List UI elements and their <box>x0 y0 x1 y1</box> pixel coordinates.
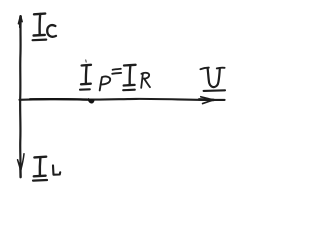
label Ir : subscript R <box>141 73 150 88</box>
label Ip : subscript P <box>100 76 110 90</box>
label U : underline <box>204 89 225 92</box>
arrowhead down (IL direction) <box>18 154 24 177</box>
arrowhead up (Ic direction) <box>19 16 23 27</box>
label IL : letter I <box>34 157 46 177</box>
arrowhead right (U direction) <box>199 97 214 104</box>
pen knot on horizontal axis <box>89 99 94 103</box>
label IL : subscript L <box>53 165 60 174</box>
label Ir : underline <box>123 89 135 92</box>
label Ic : underline <box>33 38 47 41</box>
label U : bowl <box>208 68 220 87</box>
wire horizontal axis (U direction) <box>20 99 225 100</box>
wire vertical axis <box>19 16 22 170</box>
label Ic : letter I <box>34 14 46 36</box>
label Ip : small tick above I <box>85 60 88 62</box>
label Ip : underline <box>80 88 90 90</box>
label Ip : letter I <box>81 65 91 85</box>
label Ir : letter I <box>124 65 136 86</box>
overdraw darker segment on horizontal axis <box>30 98 88 101</box>
label U : top-right serif <box>217 67 225 70</box>
equals sign <box>112 69 121 74</box>
label U : top-left serif flag <box>200 68 208 70</box>
label IL : underline <box>33 179 47 182</box>
label Ic : subscript c <box>47 25 56 37</box>
